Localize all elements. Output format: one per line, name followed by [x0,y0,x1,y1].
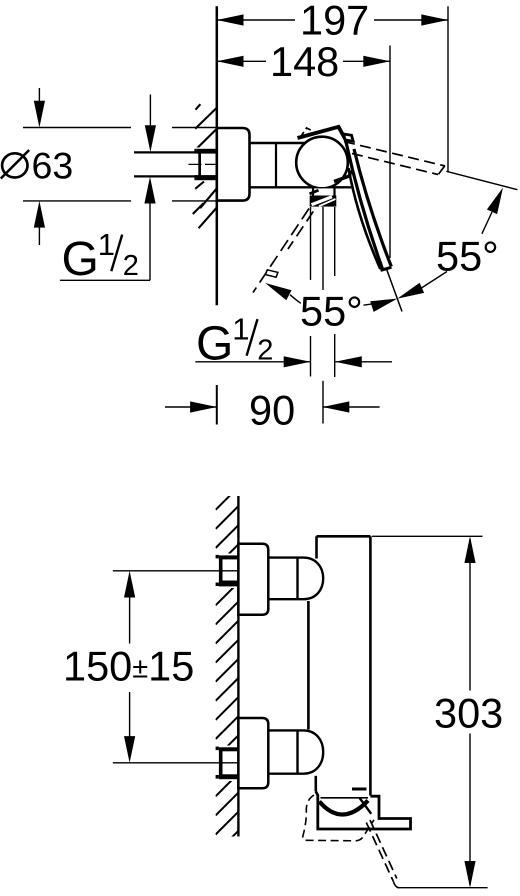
outlet cap curve [319,801,368,815]
dimension 150 plus/minus 15 [129,595,131,644]
escutcheon lower (bottom view) [238,718,268,788]
svg-text:2: 2 [123,250,139,282]
outlet extension lines [310,207,312,280]
svg-text:90: 90 [249,387,295,434]
svg-text:63: 63 [32,145,74,187]
lever handle cap (top view) [298,127,347,141]
pipe diameter leader arrows [149,95,151,129]
dimension 90 [216,385,218,425]
valve head ball (top view) [296,137,348,189]
angle 55 deg (upper right) [487,188,503,215]
lower connection center line [113,762,239,764]
wall union fitting (top view) [194,149,216,180]
wall hatching (top view) [196,104,201,110]
hand shower holder (dashed) [303,795,374,841]
wall union fitting upper (bottom view) [216,555,239,587]
extension line of open handle [446,171,517,189]
end tick of dashed handle [266,270,278,277]
wall hatching (bottom view) [216,487,239,854]
svg-text:1: 1 [98,227,115,262]
S-union upper (bottom view) [268,556,297,558]
svg-text:150±15: 150±15 [63,642,194,689]
dimension 197 [447,6,449,172]
wall surface line (top view) [216,6,219,305]
supply pipe G1/2 (top view) [134,151,217,153]
upper connection center line [113,570,239,572]
svg-text:G: G [62,233,99,286]
svg-text:148: 148 [270,38,339,85]
shower outlet and bracket (bottom view) [316,792,411,830]
outlet stub (top view) [312,188,336,195]
dimension diameter 63 [23,127,131,129]
wall surface line (bottom view) [237,496,239,837]
lever axis extension [387,270,402,312]
extension line at lever tip [398,887,488,889]
wall union fitting lower (bottom view) [216,747,239,780]
S-union lower (bottom view) [268,729,297,731]
dimension 148 [389,46,391,259]
lever handle bar (top view) [346,142,391,269]
handle open position (dashed) [344,142,445,167]
pipe center line [189,163,217,165]
mixer body (top view) [250,142,307,145]
svg-text:55°: 55° [300,287,363,334]
lever butt end [344,134,354,141]
outlet nut (top view) [310,196,337,207]
cap lower edge mark [334,171,351,182]
escutcheon flange (top view) [217,128,250,201]
escutcheon upper (bottom view) [238,544,268,615]
mixer body (bottom view) [317,535,371,538]
svg-text:303: 303 [434,689,503,736]
label G 1/2 (wall connection) [60,279,150,281]
dimension 303 [372,535,483,537]
angle 55 deg (lower) [265,283,291,300]
lever lowest position (dashed, bottom view) [370,820,397,879]
handle alternate position (dashed) [253,209,309,293]
svg-text:1: 1 [232,312,249,347]
